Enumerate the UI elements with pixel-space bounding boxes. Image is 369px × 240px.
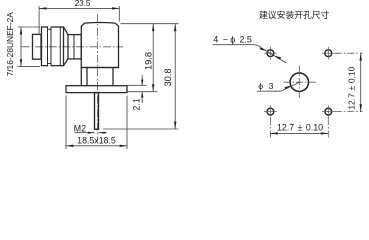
svg-text:7/16-28UNEF-2A: 7/16-28UNEF-2A (5, 12, 15, 77)
svg-text:2.1: 2.1 (132, 98, 142, 111)
svg-text:建议安装开孔尺寸: 建议安装开孔尺寸 (259, 9, 330, 20)
svg-text:12.7 ± 0.10: 12.7 ± 0.10 (277, 122, 323, 132)
svg-text:18.5x18.5: 18.5x18.5 (77, 136, 116, 146)
svg-text:19.8: 19.8 (143, 52, 153, 70)
svg-text:M2: M2 (74, 123, 86, 133)
svg-text:30.8: 30.8 (163, 68, 173, 86)
svg-text:12.7 ± 0.10: 12.7 ± 0.10 (347, 66, 357, 109)
svg-text:23.5: 23.5 (75, 0, 91, 8)
